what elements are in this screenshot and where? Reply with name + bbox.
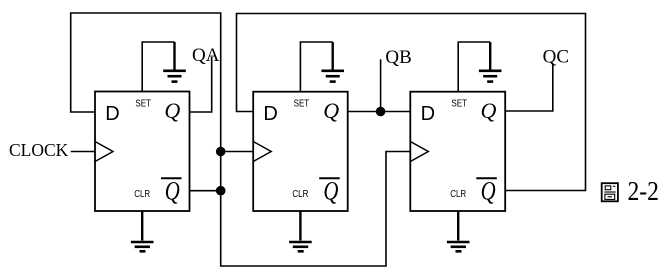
U2 clock edge triangle	[253, 142, 271, 162]
wire: U1 Qbar feedback loop to U1 D, continuing down and around to U3 clock	[71, 13, 411, 266]
svg-text:Q: Q	[164, 98, 180, 123]
U3 clock edge triangle	[410, 142, 428, 162]
svg-text:D: D	[105, 103, 119, 125]
wire: U2 SET pin riser	[300, 42, 332, 92]
wire: U3 SET pin riser	[458, 42, 490, 92]
U1 clock edge triangle	[95, 142, 113, 162]
svg-text:QA: QA	[192, 45, 220, 66]
svg-text:2-2: 2-2	[628, 175, 660, 206]
svg-text:SET: SET	[135, 99, 151, 110]
wire: feedback node to U2 clock pin	[221, 151, 254, 153]
wire: U1 SET pin riser	[142, 42, 174, 92]
wire: U3 CLR pin stem	[457, 211, 459, 241]
D flip-flop U1	[95, 92, 190, 212]
junction on U2 clock tap	[216, 147, 226, 157]
wire: U1 CLR pin stem	[141, 211, 143, 241]
D flip-flop U3	[410, 92, 505, 211]
svg-text:Q: Q	[481, 176, 496, 205]
wire: U1 Qbar output to feedback node	[190, 190, 221, 192]
junction on U2 Q / QB	[376, 107, 386, 117]
junction on U1 Qbar	[216, 186, 226, 196]
D flip-flop U2	[253, 92, 348, 211]
svg-text:SET: SET	[451, 99, 467, 110]
ground at U3 CLR	[447, 242, 470, 251]
svg-text:Q: Q	[165, 176, 180, 205]
figure caption glyph (CJK tu)	[602, 183, 618, 201]
svg-text:Q: Q	[323, 176, 338, 205]
ground at U2 CLR	[289, 242, 312, 251]
svg-text:CLR: CLR	[292, 189, 308, 200]
wire: U3 Q output up to QC	[505, 64, 553, 112]
wire: QB tap	[380, 59, 382, 111]
svg-text:SET: SET	[294, 99, 310, 110]
wire: U3 Qbar loop over the top to U2 D input	[237, 14, 586, 191]
svg-text:D: D	[263, 103, 277, 125]
svg-text:CLOCK: CLOCK	[9, 140, 69, 160]
wire: U2 CLR pin stem	[299, 211, 301, 241]
ground at U2 SET	[321, 42, 344, 82]
svg-text:CLR: CLR	[134, 189, 150, 200]
svg-text:Q: Q	[481, 98, 497, 123]
svg-text:D: D	[421, 103, 435, 125]
wire: U1 Q output up to QA	[190, 57, 212, 112]
svg-text:QB: QB	[385, 47, 411, 68]
svg-text:QC: QC	[543, 47, 569, 68]
svg-text:Q: Q	[323, 98, 339, 123]
ground at U3 SET	[479, 42, 502, 82]
wire: CLOCK input to U1 clock pin	[71, 151, 95, 153]
ground at U1 CLR	[131, 242, 154, 251]
ground at U1 SET	[163, 42, 186, 82]
wire: U2 Q output to U3 D input	[348, 111, 411, 113]
svg-text:CLR: CLR	[450, 189, 466, 200]
